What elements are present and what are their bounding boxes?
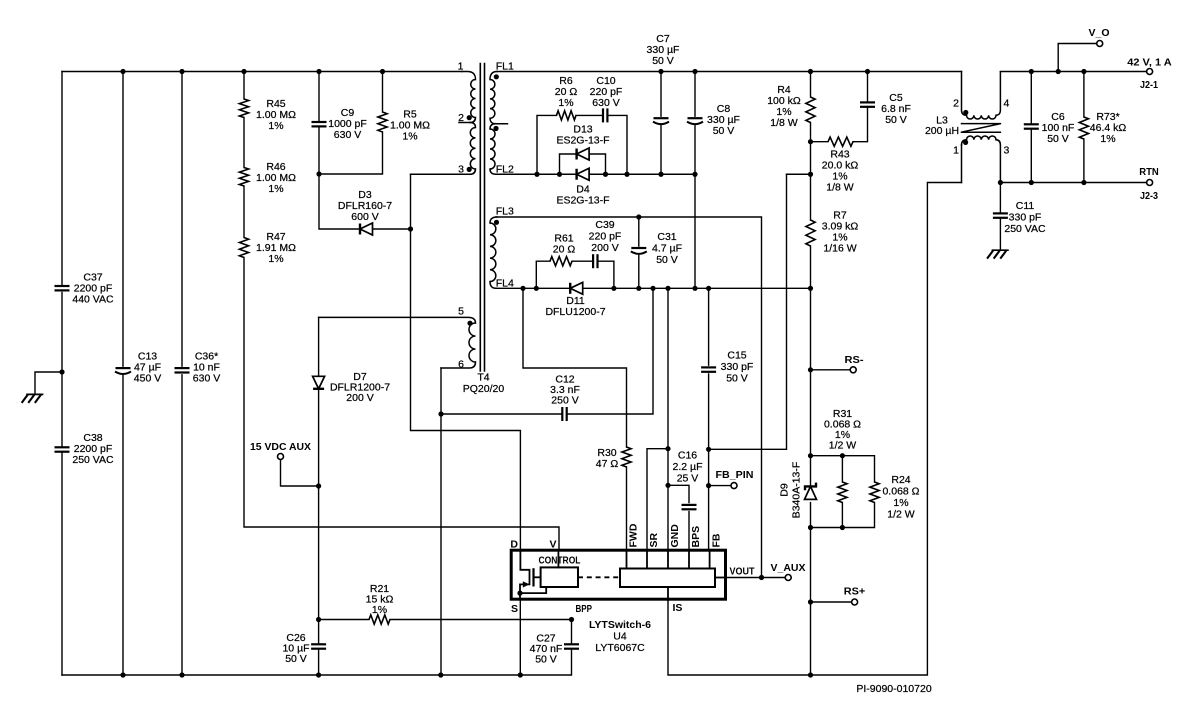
phase dot FL2 section — [493, 126, 498, 131]
junction — [241, 69, 246, 74]
svg-text:450 V: 450 V — [134, 373, 161, 385]
junction — [998, 180, 1003, 185]
wire SR tie — [647, 449, 668, 550]
wire IS return rail — [668, 183, 962, 676]
svg-text:ES2G-13-F: ES2G-13-F — [556, 195, 609, 207]
capacitor C5 — [853, 72, 868, 142]
capacitor C37 — [55, 285, 70, 287]
svg-text:FB_PIN: FB_PIN — [716, 469, 754, 481]
junction — [692, 69, 697, 74]
svg-text:220 pF: 220 pF — [589, 231, 622, 243]
svg-text:50 V: 50 V — [285, 653, 307, 665]
junction — [569, 617, 574, 622]
svg-text:BPP: BPP — [576, 603, 593, 615]
resistor R43 — [811, 141, 829, 143]
wire FL3 rail to VOUT node — [496, 217, 762, 578]
junction — [438, 411, 443, 416]
capacitor C13 — [116, 367, 131, 369]
svg-text:50 V: 50 V — [656, 254, 678, 266]
junction — [557, 172, 562, 177]
svg-text:PI-9090-010720: PI-9090-010720 — [856, 683, 931, 695]
junction — [808, 453, 813, 458]
junction — [706, 447, 711, 452]
junction — [808, 69, 813, 74]
wire line-sense to V pin — [244, 72, 559, 551]
wire drain node to D pin — [411, 174, 521, 550]
svg-text:1/8 W: 1/8 W — [770, 117, 798, 129]
junction — [636, 286, 641, 291]
junction — [865, 69, 870, 74]
svg-text:RS+: RS+ — [844, 586, 866, 598]
junction — [1056, 69, 1061, 74]
inductor L3 core — [962, 124, 1001, 133]
svg-text:FL3: FL3 — [496, 206, 514, 218]
svg-text:15 VDC AUX: 15 VDC AUX — [250, 441, 311, 453]
svg-text:DFLU1200-7: DFLU1200-7 — [545, 306, 605, 318]
capacitor C12 — [561, 407, 563, 421]
wire FL2 rail — [496, 173, 695, 175]
capacitor C26 — [318, 620, 320, 676]
svg-text:200 V: 200 V — [591, 242, 618, 254]
junction — [808, 672, 813, 677]
svg-text:1%: 1% — [402, 131, 417, 143]
phase dot L3 pin 2 — [963, 110, 968, 115]
op-amp U4 LYTSwitch-6 IC outline — [511, 550, 725, 599]
svg-text:1/8 W: 1/8 W — [826, 182, 854, 194]
ground (input filter) — [27, 393, 43, 395]
svg-text:SR: SR — [648, 532, 660, 547]
svg-text:1/16 W: 1/16 W — [823, 243, 856, 255]
svg-text:ES2G-13-F: ES2G-13-F — [556, 135, 609, 147]
wire FL1 output rail — [497, 71, 962, 73]
wire R5 branch — [319, 72, 383, 175]
junction — [316, 483, 321, 488]
svg-text:42 V, 1 A: 42 V, 1 A — [1127, 57, 1172, 69]
svg-text:C15: C15 — [727, 350, 746, 362]
wire C9 branch — [318, 72, 320, 175]
junction — [808, 599, 813, 604]
svg-text:IS: IS — [673, 602, 683, 614]
terminal RS+ — [811, 601, 852, 603]
transformer T4 secondary winding FL3-FL4 — [490, 217, 497, 223]
terminal V_O — [1058, 44, 1096, 72]
svg-text:25 V: 25 V — [677, 473, 699, 485]
svg-text:FB: FB — [711, 533, 723, 547]
svg-text:LYTSwitch-6: LYTSwitch-6 — [589, 619, 651, 631]
resistor R73 — [1083, 72, 1085, 183]
svg-text:50 V: 50 V — [713, 125, 735, 137]
resistor R31 — [811, 456, 875, 528]
svg-text:BPS: BPS — [690, 526, 702, 548]
resistor R5 — [378, 112, 387, 132]
junction — [179, 672, 184, 677]
junction — [840, 453, 845, 458]
svg-text:330 pF: 330 pF — [1009, 212, 1042, 224]
svg-text:600 V: 600 V — [351, 211, 378, 223]
phase dot FL1 — [494, 74, 499, 79]
junction — [534, 172, 539, 177]
diode D7 — [313, 388, 324, 390]
junction — [520, 286, 525, 291]
terminal RS- — [811, 369, 850, 371]
wire bus x=182 — [181, 72, 183, 676]
wire FB divider link — [709, 174, 787, 449]
junction — [692, 286, 697, 291]
junction — [603, 172, 608, 177]
capacitor C8 — [694, 72, 696, 289]
junction — [636, 214, 641, 219]
svg-text:630 V: 630 V — [592, 97, 619, 109]
transistor Q1 (U4 internal MOSFET) — [520, 550, 530, 599]
capacitor C9 — [312, 121, 327, 123]
resistor R4 — [810, 72, 812, 142]
junction — [1029, 69, 1034, 74]
svg-text:630 V: 630 V — [193, 373, 220, 385]
junction — [408, 226, 413, 231]
svg-text:0.068 Ω: 0.068 Ω — [882, 486, 919, 498]
wire earth branch — [35, 372, 62, 394]
junction — [840, 525, 845, 530]
capacitor C27 — [62, 620, 572, 676]
svg-text:GND: GND — [669, 524, 681, 548]
wire divider node — [787, 142, 811, 175]
svg-text:47 Ω: 47 Ω — [596, 458, 619, 470]
svg-text:1%: 1% — [1100, 133, 1115, 145]
svg-text:50 V: 50 V — [535, 654, 557, 666]
svg-text:5: 5 — [458, 306, 464, 318]
transformer T4 core — [480, 64, 484, 372]
svg-text:LYT6067C: LYT6067C — [595, 642, 645, 654]
transformer T4 secondary winding FL1-FL2 — [490, 72, 497, 80]
svg-text:FL1: FL1 — [496, 61, 514, 73]
capacitor C7 — [660, 72, 662, 175]
svg-text:1/2 W: 1/2 W — [829, 440, 857, 452]
junction — [1081, 180, 1086, 185]
junction — [316, 69, 321, 74]
svg-text:1%: 1% — [372, 604, 387, 616]
junction — [316, 171, 321, 176]
svg-text:V_AUX: V_AUX — [771, 562, 806, 574]
svg-text:200 V: 200 V — [346, 392, 373, 404]
junction — [759, 575, 764, 580]
transformer T4 primary winding (pins 1-2-3) — [462, 72, 476, 80]
svg-text:1%: 1% — [268, 253, 283, 265]
svg-text:2: 2 — [458, 112, 464, 124]
junction — [706, 286, 711, 291]
phase dot pin 5 — [467, 321, 472, 326]
wire clamp to D3 — [319, 174, 411, 229]
junction — [665, 446, 670, 451]
svg-text:4.7 µF: 4.7 µF — [652, 243, 682, 255]
diode D13 — [560, 154, 606, 174]
svg-text:50 V: 50 V — [1047, 133, 1069, 145]
phase dot pin 2 — [467, 115, 472, 120]
junction — [692, 172, 697, 177]
wire RTN rail — [1000, 182, 1146, 184]
capacitor C31 — [638, 217, 640, 288]
junction — [808, 525, 813, 530]
wire top rail — [62, 71, 462, 73]
resistor R24 — [870, 482, 879, 503]
junction — [316, 672, 321, 677]
diode D9 — [805, 483, 816, 491]
svg-text:50 V: 50 V — [885, 114, 907, 126]
svg-text:50 V: 50 V — [726, 373, 748, 385]
terminal J2-1 — [1147, 69, 1153, 75]
wire S pin to rail — [519, 599, 521, 675]
terminal FB_PIN — [709, 485, 731, 487]
svg-text:1%: 1% — [268, 120, 283, 132]
diode D3 — [359, 224, 361, 235]
wire VOUT stub — [715, 577, 726, 579]
svg-text:4: 4 — [1004, 98, 1010, 110]
junction — [658, 172, 663, 177]
svg-text:250 VAC: 250 VAC — [72, 454, 114, 466]
svg-text:1%: 1% — [893, 497, 908, 509]
junction — [380, 69, 385, 74]
resistor R45 — [239, 99, 248, 118]
svg-text:VOUT: VOUT — [730, 566, 755, 578]
wire sense column — [810, 288, 812, 675]
capacitor C15 — [708, 288, 710, 550]
svg-text:J2-1: J2-1 — [1140, 79, 1158, 91]
resistor R30 — [622, 447, 631, 467]
capacitor C10 — [602, 108, 604, 122]
phase dot L3 pin 1 — [963, 140, 968, 145]
svg-text:3: 3 — [1004, 145, 1010, 157]
svg-text:U4: U4 — [613, 631, 627, 643]
svg-text:D: D — [510, 539, 518, 551]
svg-text:J2-3: J2-3 — [1140, 190, 1158, 202]
junction — [624, 172, 629, 177]
svg-text:3: 3 — [458, 164, 464, 176]
svg-text:200 µH: 200 µH — [925, 125, 959, 137]
svg-text:CONTROL: CONTROL — [539, 555, 581, 567]
wire aux terminal stub — [281, 460, 319, 486]
junction — [658, 69, 663, 74]
junction — [808, 172, 813, 177]
svg-text:C39: C39 — [595, 219, 614, 231]
junction — [808, 286, 813, 291]
svg-text:1%: 1% — [558, 97, 573, 109]
phase dot FL3 — [494, 220, 499, 225]
resistor R46 — [239, 168, 248, 187]
junction — [611, 286, 616, 291]
wire source to control — [520, 587, 546, 593]
junction — [706, 483, 711, 488]
capacitor C11 — [999, 183, 1001, 251]
svg-text:440 VAC: 440 VAC — [72, 294, 114, 306]
junction — [808, 139, 813, 144]
junction — [650, 286, 655, 291]
svg-text:V: V — [549, 539, 556, 551]
capacitor C6 — [1030, 72, 1032, 183]
junction — [179, 69, 184, 74]
svg-text:630 V: 630 V — [334, 129, 361, 141]
wire IS stub — [667, 587, 669, 600]
resistor R47 — [239, 238, 248, 258]
svg-text:1/2 W: 1/2 W — [887, 509, 915, 521]
wire GND pin column — [667, 288, 669, 550]
inductor L3 winding 1-3 — [962, 140, 967, 145]
svg-text:1: 1 — [953, 145, 959, 157]
wire V pin to control — [557, 550, 559, 567]
svg-text:PQ20/20: PQ20/20 — [463, 383, 505, 395]
phase dot pin 3 — [467, 167, 472, 172]
transformer T4 bias winding (pins 5-6) — [319, 317, 476, 323]
junction — [808, 367, 813, 372]
resistor R61 — [536, 261, 614, 288]
junction — [120, 69, 125, 74]
svg-text:T4: T4 — [477, 372, 489, 384]
junction — [120, 672, 125, 677]
svg-text:50 V: 50 V — [652, 55, 674, 67]
ground (output) — [992, 249, 1008, 251]
wire 42V output rail — [1000, 71, 1146, 73]
wire pin6 down — [440, 368, 442, 414]
wire C12 row — [441, 288, 653, 414]
terminal J2-3 — [1147, 180, 1153, 186]
diode D11 — [569, 283, 571, 294]
svg-text:S: S — [511, 603, 518, 615]
wire pin6 node to bottom rail — [440, 414, 442, 675]
resistor R6 — [537, 115, 627, 174]
inductor L3 winding 2-4 — [962, 72, 967, 116]
U4 CONTROL block — [541, 567, 578, 587]
wire D7 column — [318, 317, 320, 619]
svg-text:V_O: V_O — [1089, 27, 1110, 39]
svg-text:250 V: 250 V — [551, 395, 578, 407]
U4 internal block — [620, 569, 715, 588]
wire FWD branch — [523, 288, 627, 550]
svg-text:C31: C31 — [657, 231, 676, 243]
capacitor C39 — [592, 254, 594, 268]
capacitor C38 — [55, 446, 70, 448]
junction — [534, 286, 539, 291]
svg-text:C16: C16 — [678, 450, 697, 462]
wire VOUT to V_AUX — [726, 577, 785, 579]
svg-text:D9: D9 — [779, 483, 791, 497]
svg-text:RTN: RTN — [1139, 166, 1159, 178]
wire BPP row — [319, 619, 572, 621]
junction — [1029, 180, 1034, 185]
svg-text:1%: 1% — [268, 183, 283, 195]
svg-text:2: 2 — [953, 98, 959, 110]
wire bus x=123 — [122, 72, 124, 676]
svg-text:FWD: FWD — [628, 523, 640, 547]
junction — [665, 286, 670, 291]
junction — [59, 369, 64, 374]
resistor R7 — [810, 174, 812, 288]
svg-text:B340A-13-F: B340A-13-F — [791, 462, 803, 519]
junction — [438, 672, 443, 677]
svg-text:RS-: RS- — [845, 354, 865, 366]
capacitor C16 — [668, 485, 689, 550]
wire FL4 rail — [496, 287, 811, 289]
svg-text:1: 1 — [458, 61, 464, 73]
svg-text:330 pF: 330 pF — [721, 361, 754, 373]
capacitor C36 — [175, 367, 190, 369]
junction — [518, 672, 523, 677]
junction — [316, 617, 321, 622]
svg-text:R24: R24 — [891, 474, 910, 486]
wire left rail x=62 — [61, 72, 63, 676]
junction — [1081, 69, 1086, 74]
svg-text:2.2 µF: 2.2 µF — [673, 461, 703, 473]
svg-text:250 VAC: 250 VAC — [1004, 223, 1046, 235]
svg-text:C11: C11 — [1016, 200, 1035, 212]
svg-text:6: 6 — [458, 359, 464, 371]
junction — [517, 591, 522, 596]
diode D4 — [575, 169, 577, 180]
svg-text:20 Ω: 20 Ω — [553, 244, 576, 256]
junction — [665, 483, 670, 488]
